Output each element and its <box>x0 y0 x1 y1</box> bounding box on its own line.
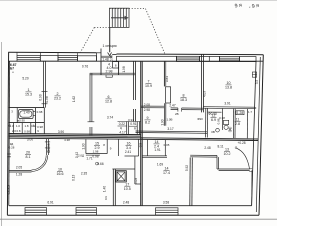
svg-text:1.0В: 1.0В <box>167 118 173 122</box>
svg-text:0.76: 0.76 <box>82 65 88 69</box>
svg-text:0.13: 0.13 <box>72 174 76 180</box>
svg-text:1.0: 1.0 <box>16 124 20 128</box>
svg-text:0.8: 0.8 <box>16 129 20 133</box>
svg-text:13.8: 13.8 <box>225 86 232 90</box>
svg-text:4.17: 4.17 <box>119 130 125 134</box>
svg-text:15: 15 <box>95 142 99 146</box>
svg-text:0.98: 0.98 <box>24 130 30 134</box>
svg-text:3.00: 3.00 <box>27 138 33 142</box>
svg-text:1.40: 1.40 <box>23 111 29 115</box>
svg-text:1 секция: 1 секция <box>102 44 116 48</box>
svg-text:1.40: 1.40 <box>103 186 107 192</box>
svg-text:2.98: 2.98 <box>106 69 113 73</box>
svg-text:0.98: 0.98 <box>47 143 51 149</box>
svg-text:10: 10 <box>227 81 231 85</box>
svg-text:0.38: 0.38 <box>219 116 225 120</box>
svg-text:11: 11 <box>236 118 240 122</box>
svg-text:3.5: 3.5 <box>255 80 259 85</box>
svg-text:4.03: 4.03 <box>202 91 206 97</box>
svg-text:9 я: 9 я <box>234 2 242 9</box>
svg-text:1.98: 1.98 <box>93 150 99 154</box>
svg-text:3.90: 3.90 <box>58 130 64 134</box>
svg-text:16.6: 16.6 <box>57 172 64 176</box>
svg-text:0.90: 0.90 <box>39 94 43 100</box>
svg-text:2.98: 2.98 <box>144 108 150 112</box>
svg-text:3: 3 <box>11 110 13 114</box>
svg-text:1.1: 1.1 <box>32 124 36 128</box>
svg-text:Ф90: Ф90 <box>197 117 203 121</box>
svg-text:4.38: 4.38 <box>64 138 70 142</box>
svg-text:5.20: 5.20 <box>22 77 28 81</box>
svg-text:0В: 0В <box>211 130 215 134</box>
svg-text:8: 8 <box>115 63 117 67</box>
svg-text:1.48: 1.48 <box>102 57 108 61</box>
svg-text:10: 10 <box>58 168 62 172</box>
svg-text:1.71: 1.71 <box>86 157 92 161</box>
svg-text:0.98: 0.98 <box>92 154 98 158</box>
svg-text:1.98: 1.98 <box>122 66 126 72</box>
svg-text:2: 2 <box>57 92 59 96</box>
svg-text:0.66: 0.66 <box>97 162 103 166</box>
svg-text:5.92: 5.92 <box>185 165 189 171</box>
svg-text:0.98: 0.98 <box>45 96 49 102</box>
svg-text:15.3: 15.3 <box>25 93 32 97</box>
svg-text:8.1: 8.1 <box>26 155 31 159</box>
svg-text:0.98: 0.98 <box>37 110 43 114</box>
svg-text:- 9 я: - 9 я <box>248 3 259 11</box>
svg-text:0.9: 0.9 <box>104 196 108 200</box>
svg-text:8.2: 8.2 <box>145 121 150 125</box>
svg-text:+0.28: +0.28 <box>237 141 245 145</box>
svg-text:2.48: 2.48 <box>123 201 129 205</box>
svg-text:6.91: 6.91 <box>47 201 53 205</box>
svg-text:1: 1 <box>28 88 30 92</box>
svg-text:2В: 2В <box>175 112 179 116</box>
svg-text:5.08: 5.08 <box>134 178 138 184</box>
svg-text:1.62: 1.62 <box>72 96 76 102</box>
svg-text:9: 9 <box>147 116 149 120</box>
svg-text:8: 8 <box>103 143 105 147</box>
svg-text:8: 8 <box>183 94 185 98</box>
svg-text:0.98: 0.98 <box>110 55 114 61</box>
svg-text:7: 7 <box>148 80 150 84</box>
svg-text:3.91: 3.91 <box>224 101 230 105</box>
svg-text:Я: Я <box>134 126 136 130</box>
svg-text:2.0Д: 2.0Д <box>78 154 84 158</box>
svg-text:Ф0.90: Ф0.90 <box>208 112 217 116</box>
svg-text:2.08: 2.08 <box>144 103 150 107</box>
svg-text:к8: к8 <box>8 123 11 127</box>
svg-text:0.05: 0.05 <box>164 143 170 147</box>
svg-text:1.8: 1.8 <box>24 124 28 128</box>
svg-text:9: 9 <box>37 129 39 133</box>
svg-text:1.28: 1.28 <box>237 111 243 115</box>
svg-text:1.90: 1.90 <box>160 119 164 125</box>
svg-text:18.3: 18.3 <box>180 98 187 102</box>
svg-text:2.41: 2.41 <box>125 150 131 154</box>
svg-text:6: 6 <box>108 95 110 99</box>
svg-text:0.91: 0.91 <box>128 118 134 122</box>
svg-text:10.2: 10.2 <box>224 152 231 156</box>
svg-text:1.90: 1.90 <box>81 143 85 149</box>
svg-text:17.4: 17.4 <box>163 171 170 175</box>
svg-text:1.69: 1.69 <box>157 162 163 166</box>
svg-text:17: 17 <box>125 182 129 186</box>
svg-text:2.47: 2.47 <box>169 103 175 107</box>
svg-text:2.48: 2.48 <box>204 146 210 150</box>
svg-text:10.5: 10.5 <box>124 187 131 191</box>
svg-text:3.58: 3.58 <box>163 201 169 205</box>
svg-text:1.91: 1.91 <box>154 148 160 152</box>
svg-text:2.05: 2.05 <box>16 166 22 170</box>
svg-text:0.28: 0.28 <box>9 146 15 150</box>
svg-text:9: 9 <box>110 147 112 151</box>
svg-text:ж0.90: ж0.90 <box>17 119 25 123</box>
svg-text:13: 13 <box>225 148 229 152</box>
svg-text:16: 16 <box>127 142 131 146</box>
svg-text:1.28: 1.28 <box>16 173 22 177</box>
svg-text:6.9: 6.9 <box>211 118 216 122</box>
svg-text:3.74: 3.74 <box>107 115 113 119</box>
svg-text:1.7: 1.7 <box>248 110 252 114</box>
svg-text:14: 14 <box>155 140 159 144</box>
svg-text:20: 20 <box>26 151 30 155</box>
svg-text:12.8: 12.8 <box>105 100 112 104</box>
svg-text:10.9: 10.9 <box>145 84 152 88</box>
svg-text:2.35: 2.35 <box>81 172 87 176</box>
svg-text:0.9: 0.9 <box>138 143 142 148</box>
svg-text:3.17: 3.17 <box>167 127 173 131</box>
svg-text:2.8: 2.8 <box>235 122 240 126</box>
svg-text:14: 14 <box>165 167 169 171</box>
svg-text:Θ: Θ <box>235 146 238 150</box>
svg-text:8.11: 8.11 <box>218 145 224 149</box>
svg-text:23.2: 23.2 <box>54 97 61 101</box>
svg-text:0.84: 0.84 <box>165 76 169 82</box>
